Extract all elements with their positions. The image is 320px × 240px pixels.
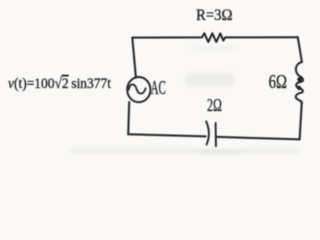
svg-text:2Ω: 2Ω [207, 95, 222, 115]
svg-text:6Ω: 6Ω [269, 71, 287, 93]
svg-text:v(t)=100√2 sin377t: v(t)=100√2 sin377t [8, 76, 112, 92]
svg-text:R=3Ω: R=3Ω [196, 7, 233, 24]
svg-text:AC: AC [151, 77, 166, 99]
